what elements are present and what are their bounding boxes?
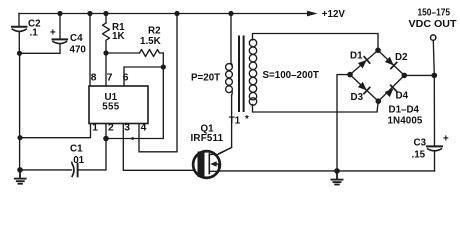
transformer T1 core bbox=[239, 37, 244, 112]
node pin1 / left rail bbox=[17, 135, 22, 140]
svg-text:T1: T1 bbox=[229, 116, 241, 127]
diode D4 bbox=[384, 85, 396, 97]
node output rail bbox=[432, 73, 438, 79]
diode bridge arms bbox=[350, 50, 404, 101]
node ground left bbox=[17, 167, 23, 173]
wire +12V top rail bbox=[19, 13, 308, 15]
svg-text:1K: 1K bbox=[112, 31, 125, 42]
node top rail / C4 tap bbox=[57, 11, 62, 16]
capacitor C3 bbox=[427, 146, 442, 171]
wire C2-C4 tie bbox=[20, 52, 61, 54]
node top rail / R1 tap bbox=[103, 11, 108, 16]
transformer T1 secondary winding bbox=[249, 39, 256, 105]
node ground mid bbox=[334, 168, 340, 174]
transformer T1 primary wire bbox=[230, 14, 232, 64]
node R1 / R2 / pin7 bbox=[103, 50, 108, 55]
svg-text:*: * bbox=[245, 114, 249, 125]
capacitor C4 bbox=[53, 14, 68, 54]
wire reset pin4 to rail bbox=[139, 14, 177, 152]
svg-text:150–175: 150–175 bbox=[418, 8, 451, 19]
svg-text:3: 3 bbox=[124, 123, 130, 134]
svg-text:IRF511: IRF511 bbox=[191, 133, 224, 144]
svg-text:4: 4 bbox=[141, 123, 147, 134]
wire left rail bbox=[19, 53, 21, 170]
svg-text:1: 1 bbox=[92, 123, 98, 134]
wire pin1 to left rail bbox=[20, 124, 91, 138]
node top rail / reset tap bbox=[174, 11, 179, 16]
node bridge bottom bbox=[376, 98, 382, 104]
transistor Q1 drain stroke bbox=[209, 148, 231, 155]
diode D2 bbox=[384, 56, 396, 68]
ground left bbox=[15, 170, 26, 184]
node top rail / pin8 tap bbox=[87, 11, 92, 16]
transformer T1 primary winding bbox=[226, 64, 233, 96]
node R2 / pin6 / tie bbox=[161, 64, 166, 69]
svg-text:8: 8 bbox=[91, 72, 97, 83]
svg-text:D1: D1 bbox=[350, 51, 363, 62]
node C2/C4 junction bbox=[17, 51, 22, 56]
wire pin6 bbox=[124, 67, 163, 86]
wire T1 secondary bottom to bridge bbox=[253, 101, 379, 112]
wire pin3 to Q1 gate bbox=[123, 124, 194, 171]
wire output vertical bbox=[433, 41, 434, 147]
transistor Q1 source stroke / ground rail right bbox=[209, 170, 219, 172]
wire bridge right to output bbox=[404, 74, 434, 76]
node top rail / T1 primary tap bbox=[228, 11, 233, 16]
wire bridge left to ground bbox=[337, 75, 350, 171]
+12V arrowhead bbox=[307, 11, 318, 17]
ground mid bbox=[331, 171, 342, 185]
capacitor C2 bbox=[12, 14, 27, 54]
wire Q1 source to bottom rail bbox=[220, 170, 435, 172]
svg-text:D4: D4 bbox=[396, 91, 409, 102]
svg-text:6: 6 bbox=[123, 72, 129, 83]
transistor Q1 body arrow bbox=[210, 161, 216, 167]
wire pin2 down bbox=[78, 124, 106, 170]
svg-text:+: + bbox=[50, 28, 56, 39]
svg-text:C3: C3 bbox=[414, 138, 427, 149]
capacitor C1 bbox=[20, 164, 78, 177]
svg-text:.01: .01 bbox=[71, 155, 85, 166]
wire T1 primary to Q1 drain bbox=[219, 95, 232, 154]
arrow mark on tie wire bbox=[129, 137, 134, 140]
svg-text:470: 470 bbox=[70, 45, 87, 56]
transistor Q1 circle bbox=[193, 151, 220, 178]
node bridge left bbox=[347, 72, 353, 78]
transistor Q1 gate bar bbox=[198, 152, 205, 178]
svg-text:2: 2 bbox=[108, 123, 114, 134]
svg-text:+: + bbox=[443, 134, 449, 145]
node pin2 tie bbox=[103, 136, 109, 142]
terminal output circle bbox=[431, 35, 436, 40]
svg-text:VDC OUT: VDC OUT bbox=[409, 19, 457, 30]
diode D1 bbox=[357, 57, 369, 69]
resistor R2 bbox=[106, 50, 163, 68]
svg-text:R2: R2 bbox=[148, 26, 161, 37]
IC U1 555 box bbox=[89, 86, 148, 124]
svg-text:C1: C1 bbox=[70, 144, 83, 155]
svg-text:555: 555 bbox=[102, 102, 119, 113]
svg-text:7: 7 bbox=[107, 72, 113, 83]
svg-text:+12V: +12V bbox=[322, 9, 346, 20]
svg-text:.1: .1 bbox=[30, 28, 39, 39]
node bridge top bbox=[375, 48, 381, 54]
svg-text:D1–D4: D1–D4 bbox=[389, 105, 420, 116]
wire T1 secondary top to bridge bbox=[253, 34, 379, 51]
svg-text:P=20T: P=20T bbox=[191, 73, 220, 84]
svg-text:1N4005: 1N4005 bbox=[388, 116, 423, 127]
resistor R1 bbox=[103, 14, 110, 54]
svg-text:1.5K: 1.5K bbox=[140, 36, 161, 47]
transistor Q1 channel bbox=[208, 154, 210, 174]
svg-text:S=100–200T: S=100–200T bbox=[263, 70, 319, 81]
wire pin2-pin6 tie bbox=[106, 67, 163, 139]
svg-text:D2: D2 bbox=[395, 52, 408, 63]
svg-text:.15: .15 bbox=[412, 150, 426, 161]
diode D3 bbox=[357, 81, 369, 93]
wire pin7 bbox=[105, 53, 107, 86]
node bridge right bbox=[402, 73, 408, 79]
svg-text:D3: D3 bbox=[351, 92, 364, 103]
wire 555 pin8 to rail bbox=[89, 14, 91, 87]
svg-text:C4: C4 bbox=[70, 33, 83, 44]
